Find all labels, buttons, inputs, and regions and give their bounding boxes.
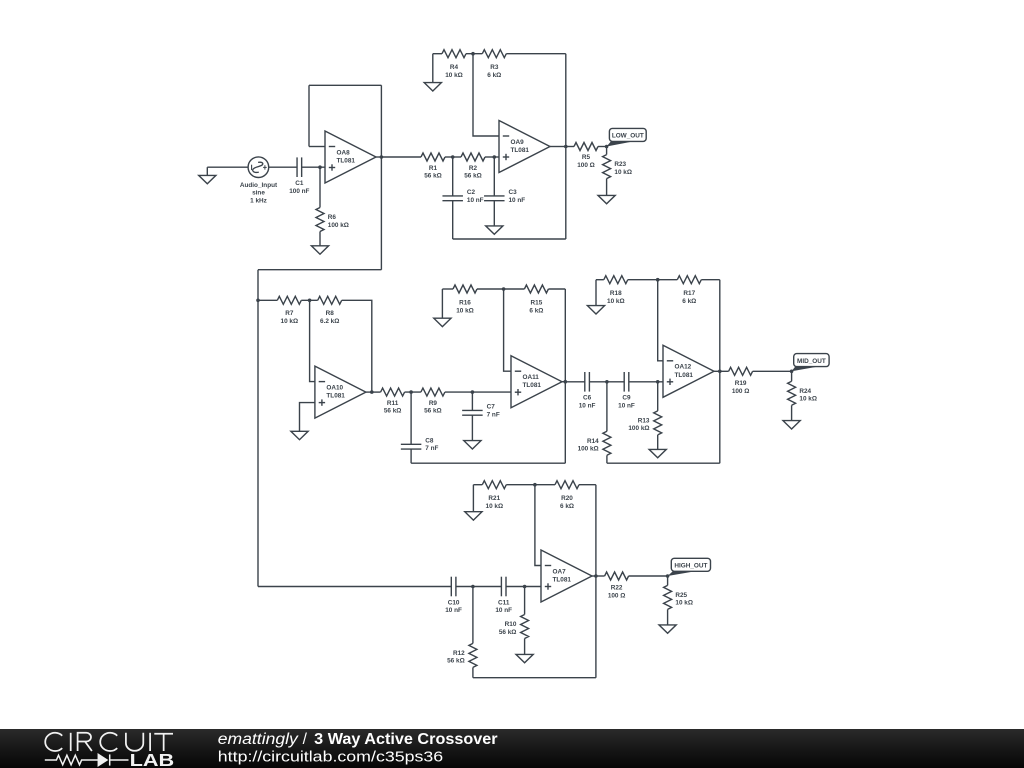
wire OA12 output: [714, 370, 720, 372]
svg-text:/: /: [303, 731, 308, 748]
op-amp OA9: [499, 121, 550, 173]
svg-text:R10: R10: [505, 621, 517, 628]
wire R19 to MID_OUT node: [753, 370, 792, 372]
output flag MID_OUT: [792, 354, 830, 372]
svg-text:R16: R16: [459, 300, 471, 307]
svg-text:R22: R22: [611, 585, 623, 592]
wire mid bottom rail 1: [411, 462, 565, 464]
resistor R3: [482, 50, 506, 58]
wire OA9 feedback bus: [565, 54, 567, 239]
ground ground under R13: [649, 449, 666, 457]
resistor R12: [469, 643, 477, 667]
node OA7 output: [594, 574, 598, 578]
svg-text:TL081: TL081: [675, 372, 694, 379]
node OA11 output: [564, 380, 568, 384]
svg-text:R7: R7: [285, 310, 294, 317]
svg-text:100 nF: 100 nF: [289, 188, 309, 195]
svg-text:LAB: LAB: [130, 750, 175, 768]
resistor R6: [316, 208, 324, 232]
resistor R22: [605, 572, 629, 580]
wire R10 to ground: [524, 639, 526, 655]
node mid-band takeoff: [256, 299, 260, 303]
node OA10 output: [370, 390, 374, 394]
ground ground under R16: [434, 318, 451, 326]
wire R20 to OA7 feedback bus: [579, 484, 596, 486]
svg-text:56 kΩ: 56 kΩ: [424, 173, 442, 180]
wire R7 to R8: [301, 299, 317, 301]
wire ground to R16: [442, 288, 453, 290]
svg-text:R24: R24: [799, 388, 811, 395]
ground ground under R21: [465, 512, 482, 520]
svg-text:sine: sine: [252, 190, 265, 197]
wire low-pass bottom rail: [453, 238, 566, 240]
svg-text:R4: R4: [450, 64, 459, 71]
svg-text:R6: R6: [328, 214, 337, 221]
node junction C6 R14: [605, 380, 609, 384]
wire OA8 feedback right / output bus: [380, 85, 382, 269]
svg-text:R1: R1: [429, 165, 438, 172]
wire C9 to OA12 + input: [629, 381, 663, 383]
svg-text:C9: C9: [622, 395, 631, 402]
svg-text:R23: R23: [614, 161, 626, 168]
resistor R13: [654, 411, 662, 435]
svg-text:10 kΩ: 10 kΩ: [456, 307, 474, 314]
svg-text:10 nF: 10 nF: [467, 197, 484, 204]
svg-text:7 nF: 7 nF: [487, 411, 500, 418]
svg-text:HIGH_OUT: HIGH_OUT: [674, 563, 707, 570]
capacitor C1: [296, 157, 298, 177]
CircuitLab logo resistor zigzag: [45, 754, 129, 765]
wire OA10 + input to ground: [300, 403, 315, 432]
wire OA11 output to C6: [565, 381, 585, 383]
svg-text:1 kHz: 1 kHz: [250, 197, 267, 204]
resistor R10: [521, 615, 529, 639]
ground ground under R25: [659, 625, 676, 633]
svg-text:10 kΩ: 10 kΩ: [445, 72, 463, 79]
svg-text:R14: R14: [587, 438, 599, 445]
node junction C9 R13: [656, 380, 660, 384]
wire R3 to feedback bus: [506, 53, 566, 55]
svg-text:56 kΩ: 56 kΩ: [424, 408, 442, 415]
wire R22 to HIGH_OUT node: [629, 575, 668, 577]
svg-text:Audio_Input: Audio_Input: [240, 182, 278, 189]
resistor R15: [524, 285, 548, 293]
svg-text:C7: C7: [487, 404, 496, 411]
wire R17 to OA12 feedback bus: [701, 279, 720, 281]
node junction R2 C3: [493, 155, 497, 159]
wire R21 to R20: [506, 484, 555, 486]
svg-text:6 kΩ: 6 kΩ: [529, 307, 543, 314]
resistor R18: [604, 276, 628, 284]
wire OA12 output to R19: [720, 370, 729, 372]
wire R16 left to ground: [441, 289, 443, 318]
node input of OA8: [318, 165, 322, 169]
wire OA10 output: [366, 391, 372, 393]
wire R25 to ground: [667, 609, 669, 625]
svg-text:OA12: OA12: [675, 364, 692, 371]
svg-text:R9: R9: [429, 400, 438, 407]
wire ground to R18: [596, 279, 604, 281]
wire R21 left to ground: [472, 485, 474, 512]
resistor R25: [664, 585, 672, 609]
svg-text:100 Ω: 100 Ω: [577, 162, 595, 169]
wire ground to R21: [473, 484, 482, 486]
output flag LOW_OUT: [607, 128, 647, 146]
wire OA8 feedback left: [308, 85, 310, 146]
resistor R9: [421, 388, 445, 396]
wire C10 to C11: [456, 586, 502, 588]
wire junction to OA12 - input: [658, 280, 663, 361]
ground ground under R23: [598, 195, 615, 203]
svg-text:10 kΩ: 10 kΩ: [675, 600, 693, 607]
op-amp OA12: [663, 345, 714, 397]
wire R4 to R3: [466, 53, 482, 55]
capacitor C6: [584, 372, 586, 392]
node MID_OUT node: [790, 370, 794, 374]
ground ground under R18: [587, 306, 604, 314]
node OA8 output: [380, 155, 384, 159]
node OA9 output: [564, 145, 568, 149]
wire node to R6: [319, 167, 321, 207]
wire OA9 output: [550, 146, 566, 148]
wire OA7 output: [592, 575, 596, 577]
wire OA10 output to R11: [372, 391, 381, 393]
node junction R9 C7: [471, 390, 475, 394]
wire node to R24: [791, 371, 793, 381]
resistor R2: [461, 153, 485, 161]
resistor R16: [453, 285, 477, 293]
wire R11 to R9: [405, 391, 421, 393]
resistor R11: [381, 388, 405, 396]
svg-text:OA11: OA11: [523, 374, 540, 381]
svg-text:R2: R2: [469, 165, 478, 172]
resistor R24: [788, 381, 796, 405]
svg-text:R21: R21: [488, 495, 500, 502]
resistor R5: [574, 143, 598, 151]
wire node to C8: [410, 392, 412, 444]
svg-text:3 Way Active Crossover: 3 Way Active Crossover: [314, 731, 497, 748]
svg-text:6 kΩ: 6 kΩ: [560, 503, 574, 510]
wire OA11 feedback bus: [564, 289, 566, 463]
svg-text:MID_OUT: MID_OUT: [797, 358, 826, 365]
svg-text:R8: R8: [326, 310, 335, 317]
wire C1 to OA8 + input: [302, 166, 325, 168]
wire R2 to OA9: [485, 156, 499, 158]
node junction R18 R17: [656, 278, 660, 282]
svg-text:100 Ω: 100 Ω: [732, 388, 750, 395]
wire OA7 output to R22: [596, 575, 605, 577]
svg-text:OA10: OA10: [326, 384, 343, 391]
node HIGH_OUT node: [666, 574, 670, 578]
wire junction to OA9 - input: [473, 54, 499, 136]
svg-text:R12: R12: [453, 650, 465, 657]
wire mid bottom rail 2: [607, 462, 720, 464]
svg-text:10 nF: 10 nF: [618, 402, 635, 409]
wire C3 to ground: [493, 201, 495, 226]
wire source to C1: [269, 166, 297, 168]
resistor R17: [677, 276, 701, 284]
wire left rail to C10: [258, 586, 451, 588]
svg-text:TL081: TL081: [553, 577, 572, 584]
capacitor C9: [623, 372, 625, 392]
wire node to R12: [472, 587, 474, 644]
node junction R1 R2 C2: [451, 155, 455, 159]
wire node to R14: [606, 382, 608, 432]
resistor R19: [729, 367, 753, 375]
svg-text:C2: C2: [467, 189, 476, 196]
wire high bottom rail: [473, 677, 596, 679]
wire R15 to OA11 feedback bus: [548, 288, 565, 290]
svg-text:R20: R20: [561, 495, 573, 502]
svg-text:100 Ω: 100 Ω: [608, 593, 626, 600]
svg-text:R17: R17: [683, 290, 695, 297]
capacitor C10: [450, 577, 452, 597]
resistor R7: [277, 296, 301, 304]
node junction R4 R3: [471, 52, 475, 56]
wire C7 to ground: [471, 415, 473, 440]
svg-text:TL081: TL081: [523, 382, 542, 389]
node junction R7 R8: [308, 299, 312, 303]
wire R18 to R17: [628, 279, 678, 281]
resistor R21: [482, 481, 506, 489]
CircuitLab logo diode: [98, 754, 107, 765]
wire OA11 output: [562, 381, 565, 383]
wire input ground stem: [206, 167, 208, 175]
svg-text:OA7: OA7: [553, 568, 567, 575]
wire R24 to ground: [791, 405, 793, 420]
wire R6 to ground: [319, 232, 321, 246]
svg-text:10 nF: 10 nF: [495, 607, 512, 614]
svg-text:6.2 kΩ: 6.2 kΩ: [320, 318, 339, 325]
wire node to C7: [471, 392, 473, 410]
wire C11 to OA7 + input: [506, 586, 541, 588]
svg-text:10 nF: 10 nF: [445, 607, 462, 614]
svg-text:OA9: OA9: [511, 139, 525, 146]
wire R8 to OA10 output: [342, 300, 372, 392]
svg-text:100 kΩ: 100 kΩ: [328, 222, 349, 229]
op-amp OA11: [511, 356, 562, 408]
capacitor C7: [462, 409, 483, 411]
svg-text:10 nF: 10 nF: [579, 402, 596, 409]
capacitor C11: [500, 577, 502, 597]
wire node to R23: [606, 147, 608, 155]
svg-text:C10: C10: [448, 599, 460, 606]
resistor R8: [318, 296, 342, 304]
node junction R11 R9 C8: [409, 390, 413, 394]
svg-text:R3: R3: [490, 64, 499, 71]
svg-text:emattingly: emattingly: [218, 731, 299, 748]
svg-text:56 kΩ: 56 kΩ: [447, 658, 465, 665]
op-amp OA8: [325, 131, 376, 183]
ground ground under R6: [311, 246, 328, 254]
svg-text:R25: R25: [675, 592, 687, 599]
wire ground to source: [207, 166, 248, 168]
wire R23 to ground: [606, 179, 608, 196]
svg-text:56 kΩ: 56 kΩ: [499, 629, 517, 636]
svg-text:100 kΩ: 100 kΩ: [628, 425, 649, 432]
svg-text:http://circuitlab.com/c35ps36: http://circuitlab.com/c35ps36: [218, 749, 443, 765]
wire R9 to OA11 + input: [445, 391, 511, 393]
svg-text:LOW_OUT: LOW_OUT: [612, 133, 644, 140]
wire OA8 output: [376, 156, 381, 158]
node junction C11 R10: [523, 585, 527, 589]
node junction C10 R12: [471, 585, 475, 589]
ground ground under R10: [516, 654, 533, 662]
wire OA8 output to R1: [381, 156, 421, 158]
svg-text:OA8: OA8: [337, 149, 351, 156]
wire C8 to mid rail: [410, 449, 412, 463]
svg-text:6 kΩ: 6 kΩ: [487, 72, 501, 79]
wire R12 to high rail: [472, 667, 474, 677]
resistor R23: [603, 155, 611, 179]
wire OA8 - input: [309, 146, 325, 148]
ground ground under C3: [486, 226, 503, 234]
CircuitLab logo word CIRCUIT (hand-drawn thin letters): [45, 733, 173, 751]
wire junction to OA11 - input: [504, 289, 511, 371]
wire R18 left to ground: [595, 280, 597, 306]
footer bar: [0, 729, 1024, 768]
wire node to R10: [524, 587, 526, 615]
op-amp OA7: [541, 550, 592, 602]
wire node to C3: [493, 157, 495, 196]
node OA12 output: [718, 370, 722, 374]
svg-text:C1: C1: [295, 180, 304, 187]
ground ground at OA10 + input: [291, 431, 308, 439]
wire OA9 output to R5: [566, 146, 574, 148]
svg-text:10 kΩ: 10 kΩ: [281, 318, 299, 325]
svg-text:TL081: TL081: [337, 158, 356, 165]
svg-text:TL081: TL081: [511, 147, 530, 154]
wire left vertical rail: [257, 270, 259, 587]
resistor R20: [555, 481, 579, 489]
wire junction to OA7 - input: [535, 485, 541, 566]
node junction R16 R15: [502, 287, 506, 291]
svg-text:10 kΩ: 10 kΩ: [486, 503, 504, 510]
ground input ground: [199, 175, 216, 183]
voltage source Audio_Input (sine 1 kHz): [248, 157, 269, 178]
svg-text:R15: R15: [531, 300, 543, 307]
svg-text:C8: C8: [425, 437, 434, 444]
wire OA7 feedback bus: [595, 485, 597, 678]
svg-text:R18: R18: [610, 290, 622, 297]
wire R5 to LOW_OUT node: [598, 146, 607, 148]
resistor R4: [442, 50, 466, 58]
capacitor C8: [401, 443, 422, 445]
wire OA8 output bus to left rail: [258, 269, 381, 271]
svg-text:R11: R11: [387, 400, 399, 407]
svg-text:10 kΩ: 10 kΩ: [607, 298, 625, 305]
svg-text:56 kΩ: 56 kΩ: [464, 173, 482, 180]
svg-text:6 kΩ: 6 kΩ: [682, 298, 696, 305]
wire R16 to R15: [477, 288, 524, 290]
output flag HIGH_OUT: [668, 558, 711, 576]
svg-text:10 kΩ: 10 kΩ: [799, 396, 817, 403]
ground ground under C7: [464, 441, 481, 449]
wire R14 to mid rail 2: [606, 455, 608, 463]
ground ground under R24: [783, 421, 800, 429]
wire OA12 feedback bus: [719, 280, 721, 464]
node LOW_OUT node: [605, 145, 609, 149]
svg-text:R13: R13: [638, 417, 650, 424]
wire node to C2: [452, 157, 454, 196]
wire C6 to C9: [589, 381, 624, 383]
capacitor C3: [484, 195, 505, 197]
wire OA8 feedback top: [309, 84, 381, 86]
ground ground under R4: [424, 83, 441, 91]
wire junction to OA10 - input: [310, 300, 315, 381]
svg-text:R19: R19: [735, 380, 747, 387]
op-amp OA10: [315, 366, 366, 418]
wire R1 to R2: [445, 156, 461, 158]
svg-text:C11: C11: [498, 599, 510, 606]
svg-text:7 nF: 7 nF: [425, 445, 438, 452]
wire node to R13: [657, 382, 659, 411]
svg-text:100 kΩ: 100 kΩ: [578, 446, 599, 453]
wire takeoff to R7: [258, 299, 277, 301]
svg-text:C3: C3: [509, 189, 518, 196]
svg-text:C6: C6: [583, 395, 592, 402]
svg-text:10 kΩ: 10 kΩ: [614, 169, 632, 176]
svg-text:10 nF: 10 nF: [509, 197, 526, 204]
wire R13 to ground: [657, 435, 659, 450]
svg-text:56 kΩ: 56 kΩ: [384, 408, 402, 415]
capacitor C2: [442, 195, 463, 197]
wire ground to R4: [433, 53, 442, 55]
wire node to R25: [667, 576, 669, 585]
svg-text:TL081: TL081: [326, 393, 345, 400]
resistor R1: [421, 153, 445, 161]
resistor R14: [603, 431, 611, 455]
wire R4 left to ground: [432, 54, 434, 83]
svg-text:R5: R5: [582, 154, 591, 161]
node junction R21 R20: [533, 483, 537, 487]
wire C2 to bottom rail: [452, 201, 454, 239]
